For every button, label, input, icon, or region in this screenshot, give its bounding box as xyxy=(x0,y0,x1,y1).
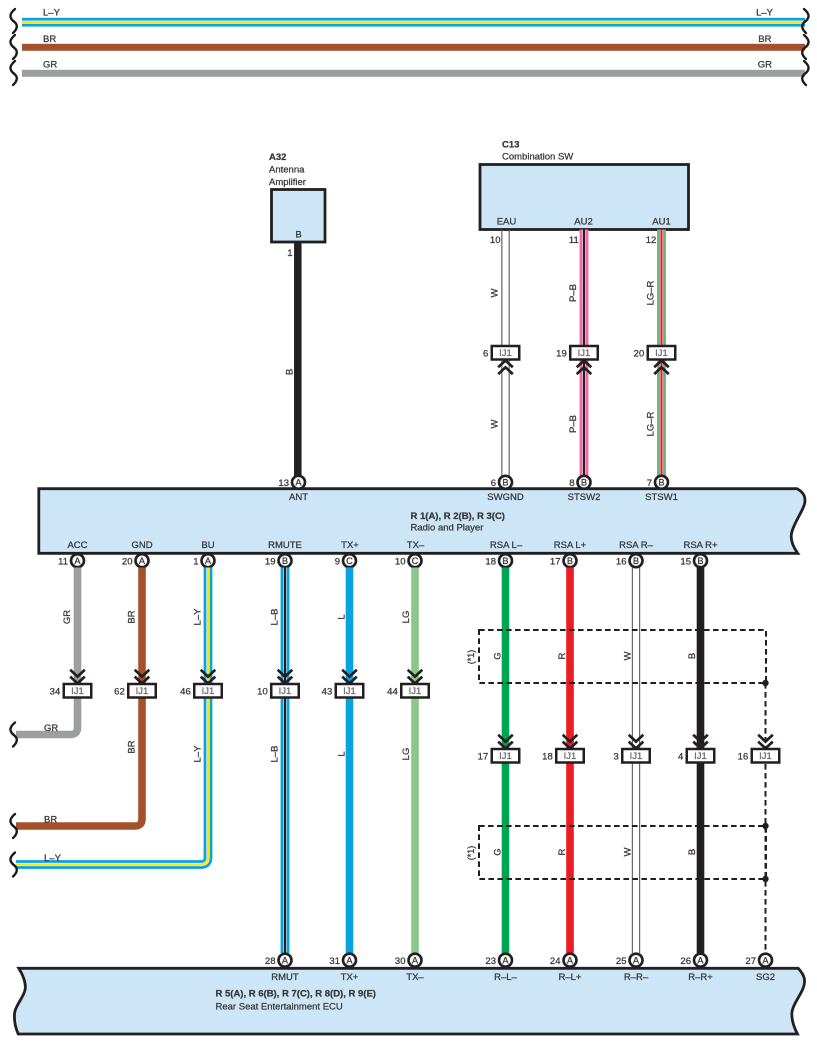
svg-text:10: 10 xyxy=(257,686,268,697)
wire LG from TX- to TX- xyxy=(411,568,419,954)
terminal 6 B (SWGND) xyxy=(491,476,512,489)
svg-text:R 1(A), R 2(B), R 3(C): R 1(A), R 2(B), R 3(C) xyxy=(411,511,505,522)
svg-text:3: 3 xyxy=(613,751,618,762)
terminal 17 B (RSA L+) xyxy=(550,554,577,567)
svg-text:L: L xyxy=(336,751,347,756)
svg-text:ACC: ACC xyxy=(67,540,87,551)
label C13 title xyxy=(502,140,573,163)
svg-text:P–B: P–B xyxy=(568,284,579,302)
connector IJ1 17 on G wire xyxy=(478,735,520,763)
connector IJ1 16 on shield wire xyxy=(738,735,780,763)
svg-text:IJ1: IJ1 xyxy=(630,751,643,762)
svg-text:BR: BR xyxy=(44,814,57,825)
terminal 1 A (BU) xyxy=(193,554,214,567)
svg-text:LG: LG xyxy=(401,611,412,624)
svg-text:TX+: TX+ xyxy=(341,972,359,983)
svg-text:RSA R–: RSA R– xyxy=(619,540,654,551)
wire GR from ACC down and left to break xyxy=(16,568,78,735)
svg-text:Amplifier: Amplifier xyxy=(269,177,306,188)
svg-text:L–B: L–B xyxy=(269,746,280,763)
svg-text:TX–: TX– xyxy=(407,540,425,551)
svg-text:B: B xyxy=(687,849,698,855)
svg-text:6: 6 xyxy=(483,348,488,359)
svg-text:L–Y: L–Y xyxy=(756,8,774,19)
svg-text:R–R–: R–R– xyxy=(624,972,649,983)
svg-text:W: W xyxy=(622,847,633,856)
svg-text:Rear Seat Entertainment ECU: Rear Seat Entertainment ECU xyxy=(216,1002,343,1013)
svg-text:GR: GR xyxy=(758,59,772,70)
svg-text:B: B xyxy=(282,556,288,566)
junction dot at lower dashed box bottom corner xyxy=(762,876,768,882)
wire L-Y horizontal (top) xyxy=(22,18,805,27)
terminal 28 A (RMUT) xyxy=(265,954,292,967)
svg-text:B: B xyxy=(284,369,295,375)
wire G from RSA L- to R-L- xyxy=(502,568,510,954)
terminal 9 C (TX+) xyxy=(335,554,356,567)
svg-text:20: 20 xyxy=(122,556,133,567)
svg-text:GR: GR xyxy=(62,610,73,624)
wire B from RSA R+ to R-R+ xyxy=(697,568,705,954)
svg-text:G: G xyxy=(492,848,503,855)
wire W from C13 EAU to SWGND xyxy=(501,230,502,477)
svg-text:TX–: TX– xyxy=(406,972,424,983)
svg-text:LG–R: LG–R xyxy=(645,280,656,305)
svg-text:A: A xyxy=(295,478,302,488)
svg-text:GR: GR xyxy=(43,59,57,70)
svg-text:BU: BU xyxy=(201,540,214,551)
svg-text:6: 6 xyxy=(491,478,496,489)
svg-text:11: 11 xyxy=(569,235,579,246)
svg-text:GR: GR xyxy=(44,723,58,734)
svg-text:SG2: SG2 xyxy=(756,972,775,983)
break squiggle on L-Y wire (lower left) xyxy=(10,853,16,877)
component R1/R2/R3 Radio and Player box xyxy=(39,489,805,554)
svg-text:AU2: AU2 xyxy=(574,217,592,228)
svg-text:IJ1: IJ1 xyxy=(655,348,668,359)
svg-text:IJ1: IJ1 xyxy=(136,686,149,697)
svg-text:R–L+: R–L+ xyxy=(559,972,582,983)
terminal 25 A (R-R-) xyxy=(616,954,643,967)
svg-text:15: 15 xyxy=(680,556,691,567)
svg-text:20: 20 xyxy=(634,348,645,359)
svg-text:IJ1: IJ1 xyxy=(343,686,356,697)
svg-text:16: 16 xyxy=(616,556,627,567)
svg-text:B: B xyxy=(658,478,664,488)
svg-text:IJ1: IJ1 xyxy=(202,686,215,697)
svg-text:IJ1: IJ1 xyxy=(578,348,591,359)
svg-text:L: L xyxy=(336,614,347,619)
terminal 13 A (ANT) xyxy=(278,476,305,489)
svg-text:BR: BR xyxy=(43,34,56,45)
terminal 24 A (R-L+) xyxy=(550,954,577,967)
svg-text:IJ1: IJ1 xyxy=(499,751,512,762)
svg-text:TX+: TX+ xyxy=(341,540,359,551)
terminal 7 B (STSW1) xyxy=(647,476,668,489)
svg-text:18: 18 xyxy=(542,751,553,762)
svg-text:Radio and Player: Radio and Player xyxy=(411,523,484,534)
svg-text:G: G xyxy=(492,652,503,659)
svg-text:R–L–: R–L– xyxy=(494,972,517,983)
break squiggle on BR wire (lower left) xyxy=(10,814,16,838)
svg-text:RSA R+: RSA R+ xyxy=(683,540,718,551)
svg-text:RSA L–: RSA L– xyxy=(490,540,523,551)
svg-text:Antenna: Antenna xyxy=(269,165,305,176)
svg-text:W: W xyxy=(622,651,633,660)
svg-text:44: 44 xyxy=(387,686,398,697)
svg-text:A: A xyxy=(282,956,289,966)
svg-text:BR: BR xyxy=(126,610,137,623)
wire P-B from C13 AU2 to STSW2 xyxy=(580,230,589,477)
svg-text:L–Y: L–Y xyxy=(192,745,203,763)
svg-text:A: A xyxy=(346,956,353,966)
svg-text:C: C xyxy=(412,556,419,566)
connector IJ1 19 on P-B wire xyxy=(556,346,598,374)
terminal 20 A (GND) xyxy=(122,554,149,567)
svg-text:12: 12 xyxy=(646,235,657,246)
svg-text:P–B: P–B xyxy=(568,415,579,433)
svg-text:B: B xyxy=(633,556,639,566)
svg-text:31: 31 xyxy=(329,956,340,967)
svg-text:ANT: ANT xyxy=(289,492,308,503)
svg-text:C13: C13 xyxy=(502,140,519,151)
svg-text:A: A xyxy=(502,956,509,966)
svg-text:10: 10 xyxy=(395,556,406,567)
connector IJ1 20 on LG-R wire xyxy=(634,346,676,374)
svg-text:R: R xyxy=(557,652,568,659)
terminal 19 B (RMUTE) xyxy=(265,554,292,567)
svg-text:A: A xyxy=(697,956,704,966)
svg-text:(*1): (*1) xyxy=(466,650,476,665)
svg-text:27: 27 xyxy=(745,956,756,967)
svg-text:RMUT: RMUT xyxy=(271,972,299,983)
svg-text:R: R xyxy=(557,848,568,855)
svg-text:9: 9 xyxy=(335,556,340,567)
connector IJ1 44 on LG wire xyxy=(387,670,429,698)
svg-text:IJ1: IJ1 xyxy=(409,686,422,697)
svg-text:IJ1: IJ1 xyxy=(694,751,707,762)
terminal 23 A (R-L-) xyxy=(485,954,512,967)
terminal 31 A (TX+) xyxy=(329,954,356,967)
svg-text:STSW2: STSW2 xyxy=(568,492,601,503)
svg-text:B: B xyxy=(567,556,573,566)
wire L-Y from BU down and left to break xyxy=(16,568,208,865)
terminal 26 A (R-R+) xyxy=(680,954,707,967)
svg-text:IJ1: IJ1 xyxy=(499,348,512,359)
connector IJ1 3 on W wire xyxy=(613,735,649,763)
break squiggle right of BR wire xyxy=(802,35,808,59)
break squiggle right of GR wire xyxy=(802,61,808,85)
svg-text:A: A xyxy=(633,956,640,966)
svg-text:17: 17 xyxy=(550,556,561,567)
dashed shield wire to SG2 xyxy=(765,683,767,953)
connector IJ1 46 on L-Y wire xyxy=(180,670,222,698)
svg-text:A: A xyxy=(762,956,769,966)
svg-text:34: 34 xyxy=(50,686,61,697)
svg-text:STSW1: STSW1 xyxy=(645,492,678,503)
svg-text:RMUTE: RMUTE xyxy=(268,540,302,551)
terminal 8 B (STSW2) xyxy=(569,476,590,489)
svg-text:IJ1: IJ1 xyxy=(279,686,292,697)
terminal 16 B (RSA R-) xyxy=(616,554,643,567)
svg-text:SWGND: SWGND xyxy=(487,492,524,503)
svg-text:26: 26 xyxy=(680,956,691,967)
svg-text:B: B xyxy=(502,478,508,488)
svg-text:BR: BR xyxy=(126,740,137,753)
svg-text:IJ1: IJ1 xyxy=(759,751,772,762)
terminal 15 B (RSA R+) xyxy=(680,554,707,567)
break squiggle left of L-Y wire xyxy=(10,9,16,33)
terminal 27 A (SG2) xyxy=(745,954,772,967)
svg-text:A: A xyxy=(567,956,574,966)
svg-text:LG–R: LG–R xyxy=(645,411,656,436)
terminal 11 A (ACC) xyxy=(58,554,84,567)
svg-text:L–Y: L–Y xyxy=(192,608,203,626)
svg-text:(*1): (*1) xyxy=(466,846,476,861)
svg-text:IJ1: IJ1 xyxy=(564,751,577,762)
svg-text:LG: LG xyxy=(401,748,412,761)
lower dashed option box (*1) xyxy=(479,826,766,879)
break squiggle on GR wire (lower left) xyxy=(10,723,16,747)
svg-text:13: 13 xyxy=(278,478,289,489)
svg-text:B: B xyxy=(687,653,698,659)
svg-text:28: 28 xyxy=(265,956,276,967)
wire GR horizontal (top) xyxy=(22,70,805,77)
svg-text:EAU: EAU xyxy=(497,217,517,228)
terminal 10 C (TX-) xyxy=(395,554,422,567)
upper dashed option box (*1) xyxy=(479,630,766,683)
svg-text:19: 19 xyxy=(265,556,276,567)
component A32 Antenna Amplifier box xyxy=(272,190,326,243)
svg-text:25: 25 xyxy=(616,956,627,967)
svg-text:RSA L+: RSA L+ xyxy=(554,540,587,551)
svg-text:A32: A32 xyxy=(269,152,286,163)
svg-text:7: 7 xyxy=(647,478,652,489)
svg-text:19: 19 xyxy=(556,348,567,359)
svg-text:1: 1 xyxy=(287,248,292,259)
wire R from RSA L+ to R-L+ xyxy=(566,568,574,954)
svg-text:L–Y: L–Y xyxy=(44,853,62,864)
svg-text:30: 30 xyxy=(395,956,406,967)
svg-text:11: 11 xyxy=(58,556,68,567)
svg-text:8: 8 xyxy=(569,478,574,489)
svg-text:A: A xyxy=(74,556,81,566)
wire L from TX+ to TX+ xyxy=(346,568,354,954)
svg-text:23: 23 xyxy=(485,956,496,967)
svg-text:43: 43 xyxy=(322,686,333,697)
svg-text:B: B xyxy=(502,556,508,566)
svg-text:A: A xyxy=(205,556,212,566)
svg-text:W: W xyxy=(489,288,500,297)
wire B from A32 pin 1 to radio ANT xyxy=(294,242,302,476)
svg-text:L–Y: L–Y xyxy=(43,8,61,19)
break squiggle left of GR wire xyxy=(10,61,16,85)
wire W from RSA R- to R-R- xyxy=(632,568,633,954)
svg-text:GND: GND xyxy=(131,540,152,551)
svg-text:B: B xyxy=(581,478,587,488)
svg-text:W: W xyxy=(489,419,500,428)
terminal 18 B (RSA L-) xyxy=(485,554,512,567)
svg-text:4: 4 xyxy=(678,751,683,762)
connector IJ1 6 on W wire xyxy=(483,346,519,374)
svg-text:16: 16 xyxy=(738,751,749,762)
svg-text:A: A xyxy=(412,956,419,966)
connector IJ1 4 on B wire xyxy=(678,735,714,763)
svg-text:17: 17 xyxy=(478,751,489,762)
svg-text:1: 1 xyxy=(193,556,198,567)
connector IJ1 10 on L-B wire xyxy=(257,670,299,698)
connector IJ1 62 on BR wire xyxy=(114,670,156,698)
break squiggle left of BR wire xyxy=(10,35,16,59)
connector IJ1 18 on R wire xyxy=(542,735,584,763)
wire L-B from RMUTE to RMUT xyxy=(281,568,290,954)
terminal 30 A (TX-) xyxy=(395,954,422,967)
svg-text:IJ1: IJ1 xyxy=(71,686,84,697)
svg-text:A: A xyxy=(139,556,146,566)
svg-text:R 5(A), R 6(B), R 7(C), R 8(D): R 5(A), R 6(B), R 7(C), R 8(D), R 9(E) xyxy=(216,989,376,1000)
junction dot at upper dashed box corner xyxy=(762,680,768,686)
svg-text:B: B xyxy=(295,230,301,241)
connector IJ1 43 on L wire xyxy=(322,670,364,698)
label A32 title xyxy=(269,152,306,188)
svg-text:18: 18 xyxy=(485,556,496,567)
svg-text:L–B: L–B xyxy=(269,609,280,626)
svg-text:46: 46 xyxy=(180,686,191,697)
svg-text:BR: BR xyxy=(758,34,771,45)
connector IJ1 34 on GR wire xyxy=(50,670,92,698)
wire LG-R from C13 AU1 to STSW1 xyxy=(657,230,666,477)
svg-text:10: 10 xyxy=(490,235,501,246)
junction dot at lower dashed box top corner xyxy=(762,823,768,829)
svg-text:Combination SW: Combination SW xyxy=(502,152,573,163)
component R5-R9 Rear Seat Entertainment ECU box xyxy=(14,968,804,1034)
wire BR horizontal (top) xyxy=(22,44,805,51)
svg-text:24: 24 xyxy=(550,956,561,967)
svg-text:62: 62 xyxy=(114,686,125,697)
wire BR from GND down and left to break xyxy=(16,568,142,827)
break squiggle right of L-Y wire xyxy=(802,9,808,33)
svg-text:R–R+: R–R+ xyxy=(688,972,713,983)
svg-text:C: C xyxy=(346,556,353,566)
svg-text:AU1: AU1 xyxy=(652,217,670,228)
component C13 Combination SW box xyxy=(480,165,689,230)
svg-text:B: B xyxy=(697,556,703,566)
